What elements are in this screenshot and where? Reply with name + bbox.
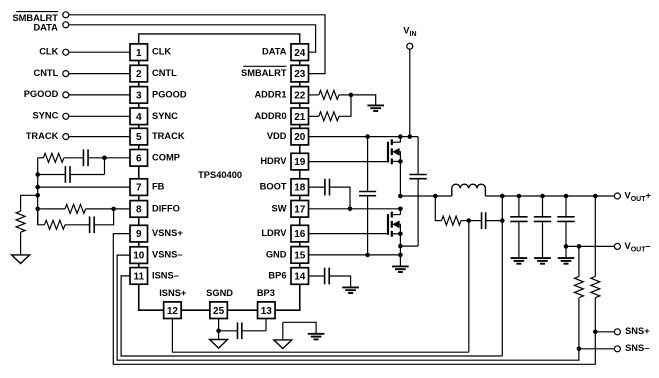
node SW-inductor junction — [398, 194, 403, 199]
capacitor C-vdd (VDD bypass) — [367, 137, 369, 192]
IC U1 TPS40400 outline top — [139, 34, 300, 44]
wire SW to inductor — [400, 195, 451, 197]
wire snubber down — [435, 196, 441, 221]
terminal SNS+ — [614, 329, 620, 335]
wire left rail vertical — [37, 158, 39, 225]
wire DIFFO rail to resistor — [38, 208, 45, 210]
wire IC right column pin19-pin18 — [299, 170, 301, 179]
svg-text:CNTL: CNTL — [34, 68, 59, 78]
svg-text:DATA: DATA — [262, 47, 287, 57]
resistor R-diffo (series) — [65, 204, 86, 213]
svg-text:25: 25 — [213, 306, 225, 317]
wire DIFFO lower branch left — [38, 209, 45, 225]
resistor R-addr1 — [309, 94, 319, 96]
wire inductor to VOUT+ terminal — [485, 195, 614, 197]
ground (earth) C-out3 — [558, 257, 575, 259]
wire pin25-pin13 — [227, 309, 257, 311]
wire sense node to cap — [469, 220, 482, 222]
ground (signal) SGND — [210, 340, 228, 349]
wire pin12-pin25 — [181, 309, 210, 311]
node source-Cin junction — [398, 244, 403, 249]
svg-text:SNS+: SNS+ — [625, 326, 650, 336]
node rail-bias junction — [35, 193, 40, 198]
wire IC right column pin21-pin20 — [299, 125, 301, 129]
node C-sense-rail junction — [500, 218, 505, 223]
terminal CNTL — [63, 71, 69, 77]
wire ADDR node to ground — [351, 95, 376, 106]
wire VDD pin20 line — [309, 136, 418, 138]
wire SGND pin25 down — [218, 319, 220, 331]
wire BP3 pin13 down — [265, 319, 267, 331]
svg-text:DIFFO: DIFFO — [152, 203, 180, 213]
node DIFFO junction — [111, 207, 116, 212]
terminal TRACK — [63, 134, 69, 140]
capacitor C-out1 (output) — [518, 196, 520, 217]
node VOUT+ rail junction — [500, 194, 505, 199]
svg-text:PGOOD: PGOOD — [24, 89, 59, 99]
node rail-DIFFO junction — [35, 207, 40, 212]
svg-text:LDRV: LDRV — [261, 228, 287, 238]
transistor Q1 (high-side NFET) — [387, 142, 389, 163]
node SNS- junction — [577, 347, 582, 352]
terminal VIN — [407, 43, 413, 49]
ground (earth) power — [392, 265, 409, 267]
node ADDR junction — [349, 93, 354, 98]
pin 2 box — [130, 65, 148, 82]
ground (earth) BP6 — [342, 286, 359, 288]
wire SGND to ground — [218, 331, 220, 340]
node VDD-drain junction — [398, 134, 403, 139]
svg-text:13: 13 — [261, 306, 273, 317]
pin 11 box — [130, 268, 148, 285]
resistor R-sns2 — [591, 277, 600, 298]
capacitor C-out3 (output) — [565, 196, 567, 217]
node VOUT+ C-out1 junction — [517, 194, 522, 199]
capacitor C-bp6 — [324, 268, 326, 285]
pin 3 box — [130, 87, 148, 104]
node rail-C2 junction — [35, 172, 40, 177]
terminal VOUT- — [614, 243, 620, 249]
wire IC left column pin6-pin7 — [138, 166, 140, 179]
svg-text:18: 18 — [294, 183, 306, 194]
capacitor C-bp3 — [219, 330, 238, 332]
pin 17 box — [291, 201, 309, 218]
wire BP6 pin14 to cap — [309, 275, 325, 277]
node VOUT+ C-out2 junction — [540, 194, 545, 199]
node SNS+ junction — [593, 330, 598, 335]
node Q2 source junction — [398, 232, 403, 237]
terminal CLK — [63, 49, 69, 55]
capacitor C-in (input) — [417, 137, 419, 175]
wire R-sns2 top lead — [594, 196, 596, 277]
node GND-power junction — [398, 253, 403, 258]
svg-text:VSNS+: VSNS+ — [152, 228, 183, 238]
svg-text:SYNC: SYNC — [152, 111, 178, 121]
wire CLK terminal to pin1 — [69, 51, 130, 53]
svg-text:SW: SW — [272, 203, 287, 213]
svg-text:ISNS+: ISNS+ — [159, 288, 187, 298]
wire ISNS+ bus (pin12 to sense node) — [172, 319, 468, 353]
svg-text:GND: GND — [266, 249, 287, 259]
ground tie (earth) — [308, 333, 325, 335]
pin 8 box — [130, 201, 148, 218]
svg-text:CNTL: CNTL — [152, 68, 177, 78]
pin 24 box — [291, 44, 309, 61]
wire SW pin17 line — [309, 208, 401, 210]
wire IC right column pin24-pin23 — [299, 61, 301, 66]
terminal VOUT+ — [614, 193, 620, 199]
pin 10 box — [130, 247, 148, 264]
svg-text:23: 23 — [294, 69, 306, 80]
svg-text:3: 3 — [136, 91, 142, 102]
pin 16 box — [291, 225, 309, 242]
capacitor C-sense — [481, 212, 483, 229]
svg-text:ISNS–: ISNS– — [152, 270, 179, 280]
capacitor C-comp2 (COMP parallel) — [64, 166, 66, 183]
resistor R-sense (DCR network) — [442, 216, 462, 225]
wire COMP pin6 to node — [105, 157, 131, 159]
wire R-sns1 top lead — [578, 246, 580, 276]
svg-text:9: 9 — [136, 229, 142, 240]
wire SYNC terminal to pin4 — [69, 115, 130, 117]
wire IC left column pin7-pin8 — [138, 195, 140, 200]
svg-text:SNS–: SNS– — [625, 343, 649, 353]
ground (earth) C-out2 — [534, 257, 551, 259]
svg-text:ADDR1: ADDR1 — [254, 89, 286, 99]
wire VIN down to VDD line — [409, 49, 411, 136]
svg-text:4: 4 — [136, 112, 142, 123]
wire C-sense to VOUT+ rail — [486, 220, 503, 222]
svg-text:VSNS–: VSNS– — [152, 250, 183, 260]
svg-text:24: 24 — [294, 48, 306, 59]
wire R-addr1 to node — [339, 94, 351, 96]
wire BOOT pin18 to cap — [309, 186, 325, 188]
wire C-fb2 to DIFFO node — [94, 209, 113, 225]
wire IC left column pin9-pin10 — [138, 242, 140, 247]
wire IC left column pin4-pin5 — [138, 125, 140, 129]
resistor R-sns1 — [574, 277, 583, 298]
inductor L1 — [451, 188, 453, 196]
pin 12 box — [164, 302, 182, 319]
svg-text:SYNC: SYNC — [32, 111, 58, 121]
pin 1 box — [130, 44, 148, 61]
pin 22 box — [291, 87, 309, 104]
wire C-boot to SW line — [330, 187, 351, 209]
svg-text:ADDR0: ADDR0 — [254, 111, 286, 121]
wire IC left column pin8-pin9 — [138, 217, 140, 225]
svg-text:FB: FB — [152, 182, 165, 192]
svg-text:CLK: CLK — [152, 47, 171, 57]
wire FB pin7 to rail — [38, 186, 130, 188]
capacitor C-comp1 (COMP series) — [82, 149, 84, 166]
svg-text:8: 8 — [136, 205, 142, 216]
ground (signal) below R-bias — [12, 255, 30, 264]
svg-text:5: 5 — [136, 132, 142, 143]
terminal PGOOD — [63, 92, 69, 98]
svg-text:1: 1 — [136, 48, 142, 59]
wire IC left column pin1-pin2 — [138, 61, 140, 66]
wire IC left column pin3-pin4 — [138, 103, 140, 108]
pin 15 box — [291, 247, 309, 264]
wire CNTL terminal to pin2 — [69, 73, 130, 75]
wire COMP to left rail — [38, 157, 44, 159]
node VDD-VIN junction — [408, 134, 413, 139]
node SW junction — [398, 207, 403, 212]
ground (earth) ADDR — [367, 104, 384, 106]
node rail-FB junction — [35, 185, 40, 190]
svg-text:PGOOD: PGOOD — [152, 89, 187, 99]
pin 7 box — [130, 179, 148, 196]
pin 14 box — [291, 268, 309, 285]
wire PGOOD terminal to pin3 — [69, 94, 130, 96]
wire VSNS- bus (pin10 to SNS-) — [117, 255, 579, 360]
wire pin13 to pin14 box — [275, 284, 300, 310]
wire IC left column pin2-pin3 — [138, 82, 140, 87]
terminal SMBALRT — [63, 12, 69, 18]
svg-text:20: 20 — [294, 132, 306, 143]
pin 4 box — [130, 108, 148, 125]
svg-text:TRACK: TRACK — [26, 131, 59, 141]
wire rail to bias resistor — [21, 195, 38, 211]
wire ISNS- vertical — [501, 196, 503, 356]
svg-text:6: 6 — [136, 153, 142, 164]
node COMP junction — [102, 156, 107, 161]
wire IC right column pin23-pin22 — [299, 82, 301, 87]
node VOUT+ C-out3 junction — [564, 194, 569, 199]
svg-text:HDRV: HDRV — [260, 156, 287, 166]
wire SMBALRT terminal to pin23 — [69, 15, 325, 74]
resistor R-bias (to ground) — [16, 211, 25, 232]
wire COMP lower branch right — [104, 158, 106, 175]
node VOUT+ divider junction — [593, 194, 598, 199]
node VOUT- junction at C-out3 — [564, 244, 569, 249]
svg-text:VDD: VDD — [267, 131, 287, 141]
svg-text:19: 19 — [294, 157, 306, 168]
wire IC left column pin5-pin6 — [138, 145, 140, 150]
svg-text:COMP: COMP — [152, 152, 180, 162]
terminal DATA — [63, 22, 69, 28]
wire HDRV pin19 to gate — [309, 161, 389, 163]
wire Q1 drain to VDD line — [399, 137, 401, 143]
node ISNS+ sense junction — [467, 218, 472, 223]
svg-text:14: 14 — [294, 272, 306, 283]
wire SNS- to terminal — [579, 348, 615, 350]
pin 13 box — [258, 302, 276, 319]
resistor R-fb2 (lower branch) — [45, 220, 66, 229]
node VOUT- divider junction — [577, 244, 582, 249]
wire R-fb2 to C-fb2 — [65, 224, 90, 226]
wire SNS+ to terminal — [595, 331, 614, 333]
svg-text:BOOT: BOOT — [260, 182, 287, 192]
svg-text:CLK: CLK — [39, 47, 58, 57]
svg-text:SGND: SGND — [206, 288, 233, 298]
wire TRACK terminal to pin5 — [69, 136, 130, 138]
pin 5 box — [130, 128, 148, 145]
capacitor C-out2 (output) — [542, 196, 544, 217]
capacitor C-fb2 (lower branch) — [89, 216, 91, 233]
pin 19 box — [291, 153, 309, 170]
wire IC left column pin10-pin11 — [138, 263, 140, 267]
pin 21 box — [291, 108, 309, 125]
svg-text:7: 7 — [136, 183, 142, 194]
svg-text:21: 21 — [294, 112, 306, 123]
svg-text:DATA: DATA — [33, 22, 58, 32]
wire R-sns1 to SNS- node — [578, 298, 580, 349]
wire C-bp6 to ground — [329, 276, 350, 287]
node SGND junction — [216, 329, 221, 334]
wire DIFFO node to pin8 — [114, 208, 130, 210]
wire VSNS+ bus (pin9 to SNS+) — [113, 234, 595, 365]
svg-text:10: 10 — [133, 251, 145, 262]
ground tie (signal) AGND — [274, 340, 292, 349]
resistor R-comp (COMP series) — [43, 153, 63, 162]
svg-text:12: 12 — [167, 306, 179, 317]
wire bias resistor to ground — [20, 232, 22, 255]
ground tie wire — [283, 322, 316, 334]
wire IC right column pin22-pin21 — [299, 103, 301, 108]
pin 6 box — [130, 150, 148, 167]
pin 9 box — [130, 225, 148, 242]
svg-text:15: 15 — [294, 251, 306, 262]
wire ISNS- bus (pin11 to VOUT+ rail) — [121, 276, 502, 356]
wire DIFFO resistor leads — [45, 208, 65, 210]
wire Q2 source down — [399, 234, 401, 255]
wire GND to earth — [399, 255, 401, 267]
node GND-Cvdd junction — [365, 253, 370, 258]
wire R-addr0 up to node — [339, 95, 351, 116]
svg-text:22: 22 — [294, 91, 306, 102]
ground (earth) C-out1 — [511, 257, 528, 259]
wire IC right column pin15-pin14 — [299, 263, 301, 268]
wire LDRV pin16 to gate — [309, 233, 389, 235]
node Q1 source junction — [398, 159, 403, 164]
wire R-sense to node — [461, 220, 469, 222]
svg-text:BP3: BP3 — [257, 288, 275, 298]
node VDD-cap junction — [365, 134, 370, 139]
node BOOT-SW junction — [348, 207, 353, 212]
svg-text:16: 16 — [294, 229, 306, 240]
svg-text:SMBALRT: SMBALRT — [241, 68, 287, 78]
pin 25 box — [210, 302, 228, 319]
wire GND pin15 line — [309, 254, 401, 256]
svg-text:11: 11 — [133, 272, 144, 283]
transistor Q2 (low-side NFET) — [387, 214, 389, 235]
wire Q2 drain to SW line — [399, 209, 401, 215]
pin 20 box — [291, 128, 309, 145]
wire VOUT- line — [566, 245, 614, 247]
wire IC right column pin16-pin15 — [299, 242, 301, 247]
wire DATA terminal to pin24 — [69, 25, 316, 52]
svg-text:TRACK: TRACK — [152, 131, 185, 141]
wire IC right column pin20-pin19 — [299, 145, 301, 153]
wire R-sns2 to SNS+ node — [594, 298, 596, 332]
wire pin11 to pin12 box — [139, 284, 164, 310]
svg-text:17: 17 — [294, 204, 306, 215]
capacitor C-boot — [324, 179, 326, 196]
wire IC right column pin18-pin17 — [299, 195, 301, 200]
terminal SNS- — [614, 346, 620, 352]
terminal SYNC — [63, 113, 69, 119]
svg-text:2: 2 — [136, 69, 142, 80]
pin 18 box — [291, 179, 309, 196]
wire Q1 source down to SW node — [399, 161, 401, 196]
svg-text:BP6: BP6 — [268, 271, 286, 281]
pin 23 box — [291, 65, 309, 82]
node snubber junction — [433, 194, 438, 199]
resistor R-addr0 — [309, 115, 319, 117]
svg-text:TPS40400: TPS40400 — [198, 170, 242, 180]
wire IC right column pin17-pin16 — [299, 217, 301, 225]
